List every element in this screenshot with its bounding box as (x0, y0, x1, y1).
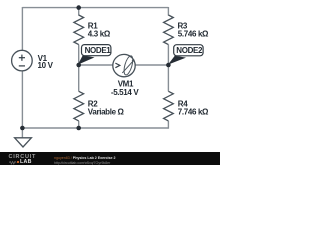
svg-text:NODE2: NODE2 (176, 46, 203, 55)
wire R4 top lead (167, 65, 169, 91)
junction dot NODE2 (166, 63, 171, 68)
voltmeter VM1 (111, 54, 139, 97)
wire top rail (22, 7, 168, 9)
wire R2 bottom lead (78, 121, 80, 128)
attribution text (54, 156, 116, 160)
svg-text:5.746 kΩ: 5.746 kΩ (178, 30, 209, 39)
svg-text:-5.514 V: -5.514 V (111, 88, 139, 97)
junction dot NODE1 (76, 63, 81, 68)
CircuitLab logo (9, 155, 37, 160)
wire ground stub (21, 128, 23, 138)
wire NODE1 to voltmeter (79, 64, 114, 66)
wire R1 top lead (78, 8, 80, 16)
wire voltmeter to NODE2 (135, 64, 169, 66)
wire R3 bottom lead to NODE2 (167, 45, 169, 65)
node NODE1 flag (78, 45, 111, 65)
resistor R2 Variable Ω (74, 91, 125, 121)
wire R4 bottom lead (167, 121, 169, 129)
wire left rail upper (21, 7, 23, 50)
voltage source V1 (12, 50, 54, 71)
svg-text:VM1: VM1 (118, 79, 134, 88)
svg-text:7.746 kΩ: 7.746 kΩ (178, 108, 209, 117)
watermark bar (0, 152, 220, 165)
resistor R4 7.746 kΩ (164, 91, 209, 121)
junction dot bottom rail / R2 (76, 126, 81, 131)
svg-text:NODE1: NODE1 (85, 46, 112, 55)
resistor R3 5.746 kΩ (164, 15, 209, 45)
wire bottom rail (22, 127, 168, 129)
wire left rail lower (21, 71, 23, 128)
ground (15, 138, 32, 147)
svg-text:10 V: 10 V (38, 61, 54, 70)
junction dot ground corner (20, 126, 25, 131)
resistor R1 4.3 kΩ (74, 15, 111, 45)
wire R2 top lead (78, 65, 80, 91)
wire R3 top lead (167, 7, 169, 16)
wire R1 bottom lead to NODE1 (78, 45, 80, 65)
svg-text:4.3 kΩ: 4.3 kΩ (88, 30, 111, 39)
svg-text:Variable Ω: Variable Ω (88, 108, 125, 117)
node NODE2 flag (168, 45, 203, 65)
junction dot top rail / R1 (76, 5, 81, 10)
